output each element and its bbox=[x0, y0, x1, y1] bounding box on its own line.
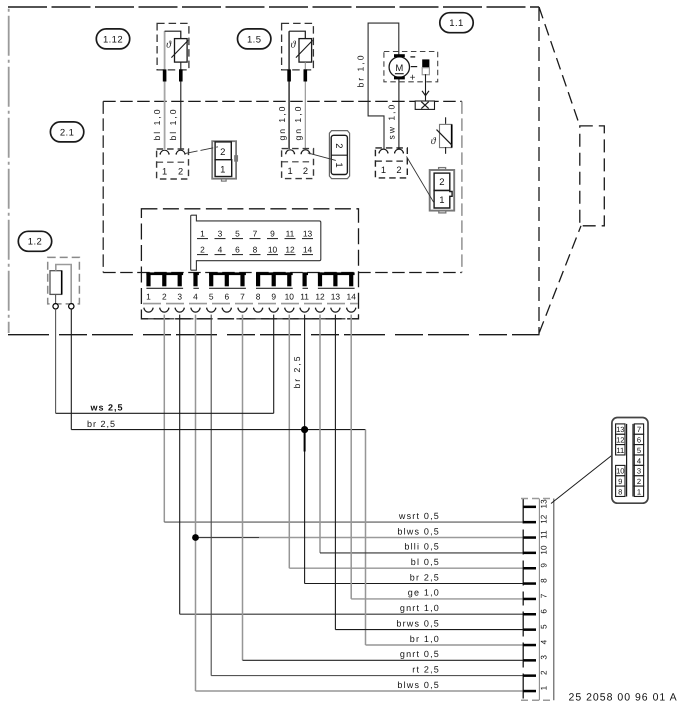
svg-text:1: 1 bbox=[162, 166, 167, 176]
svg-text:8: 8 bbox=[256, 291, 261, 301]
RH connector pin bar 3 bbox=[523, 659, 536, 662]
svg-text:8: 8 bbox=[540, 578, 549, 583]
connector pin tooth 14 bbox=[349, 272, 353, 286]
sensor 1.12 left lead wire bbox=[164, 31, 166, 149]
sensor 1.5 pin 2 bbox=[304, 69, 308, 81]
connector sensor 1.12 plug socket arc pin 2 bbox=[176, 150, 185, 154]
svg-text:2.1: 2.1 bbox=[60, 127, 74, 138]
wire blli 0,5 to RH pin 10 (horizontal) bbox=[320, 552, 523, 554]
svg-text:1.5: 1.5 bbox=[247, 34, 261, 45]
connector pin group bar pins 4-4 bbox=[193, 272, 199, 275]
svg-text:4: 4 bbox=[218, 245, 223, 255]
svg-text:gnrt 1,0: gnrt 1,0 bbox=[400, 603, 440, 613]
motor top brush cap bbox=[394, 54, 405, 57]
svg-text:+: + bbox=[410, 73, 416, 84]
svg-text:10: 10 bbox=[616, 467, 624, 476]
svg-text:ϑ: ϑ bbox=[291, 40, 297, 51]
RH connector bottom dashed edge bbox=[521, 699, 554, 701]
svg-text:13: 13 bbox=[303, 229, 313, 239]
wire br 2,5 from pin 11 (vertical) bbox=[304, 315, 306, 584]
fuse terminal 1 circle bbox=[53, 304, 58, 309]
svg-text:1.12: 1.12 bbox=[103, 34, 123, 45]
fuse 1.2 element body bbox=[50, 271, 62, 295]
ECU socket arc pin 2 bbox=[160, 308, 169, 313]
svg-text:9: 9 bbox=[618, 477, 622, 486]
svg-text:9: 9 bbox=[540, 563, 549, 568]
wire gnrt 0,5 to RH pin 3 (horizontal) bbox=[243, 659, 524, 661]
svg-text:5: 5 bbox=[540, 624, 549, 629]
connector motor 1.1 plug socket arc pin 1 bbox=[379, 149, 388, 153]
svg-text:rt 2,5: rt 2,5 bbox=[412, 664, 440, 674]
sensor 1.12 pin 2 bbox=[179, 69, 183, 81]
svg-text:5: 5 bbox=[235, 229, 240, 239]
sensor 1.5 left lead wire bbox=[288, 31, 290, 149]
group underline pins 4-4 bbox=[193, 287, 199, 289]
svg-text:13: 13 bbox=[540, 499, 549, 509]
wire br 2,5 fuse drop (vertical) bbox=[70, 309, 72, 430]
svg-text:brws 0,5: brws 0,5 bbox=[396, 618, 440, 628]
svg-text:blli 0,5: blli 0,5 bbox=[404, 542, 440, 552]
svg-text:2: 2 bbox=[303, 166, 308, 176]
connector motor 1.1 plug socket arc pin 2 bbox=[395, 149, 404, 153]
control unit 2.1 box top edge bbox=[103, 100, 462, 102]
svg-text:M: M bbox=[395, 63, 403, 74]
socket row bottom dashed line bbox=[141, 318, 358, 320]
svg-text:gn 1,0: gn 1,0 bbox=[293, 105, 303, 141]
RH connector pin bar 13 bbox=[523, 506, 536, 509]
RH connector top dashed edge bbox=[521, 498, 554, 500]
RH connector pin bar 4 bbox=[523, 644, 536, 647]
svg-text:2: 2 bbox=[178, 166, 183, 176]
connector sensor 1.12 plug separator line bbox=[157, 161, 189, 163]
RH face left cell 8 bbox=[616, 486, 625, 496]
RH face right cell 2 bbox=[634, 476, 643, 486]
connector pin group bar pins 5-7 bbox=[209, 272, 246, 275]
wire rt 2,5 to RH pin 2 (horizontal) bbox=[211, 675, 523, 677]
motor M circle bbox=[389, 57, 409, 77]
svg-text:ϑ: ϑ bbox=[166, 40, 172, 51]
RH connector pin bar 8 bbox=[523, 582, 536, 585]
wire br 1.0 motor supply loop bbox=[368, 23, 399, 149]
svg-text:2: 2 bbox=[439, 177, 444, 188]
label ellipse 1.12 bbox=[96, 29, 129, 49]
wire ws 2,5 fuse drop (vertical) bbox=[55, 309, 57, 413]
junction dot blws bbox=[192, 534, 199, 541]
RH connector pin bar 5 bbox=[523, 628, 536, 631]
RH face left cell 12 bbox=[616, 434, 625, 444]
RH face left cell 11 bbox=[616, 445, 625, 455]
motor M underline bbox=[395, 73, 404, 75]
connector pin tooth 4 bbox=[193, 272, 197, 286]
svg-text:2: 2 bbox=[540, 670, 549, 675]
svg-text:2: 2 bbox=[162, 291, 167, 301]
RH face left cell 13 bbox=[616, 424, 625, 434]
motor middle tick bbox=[411, 66, 417, 68]
sensor 1.12 bottom lead wire bbox=[180, 62, 182, 149]
wire blws 0,5 to RH pin 1 (horizontal) bbox=[196, 690, 524, 692]
connector sensor 1.12 plug socket arc pin 1 bbox=[160, 150, 169, 154]
control unit 2.1 box bottom edge bbox=[103, 272, 462, 274]
motor 1.1 dashed box bbox=[384, 52, 438, 82]
svg-text:bl 1,0: bl 1,0 bbox=[152, 107, 162, 140]
wire br 2,5 fuse to junction (horizontal) bbox=[71, 429, 365, 431]
svg-text:1: 1 bbox=[200, 229, 205, 239]
wire gnrt 1,0 from pin 3 (vertical) bbox=[179, 315, 181, 615]
RH connector pin bar 2 bbox=[523, 674, 536, 677]
wire wsrt 0,5 from pin 2 (vertical) bbox=[163, 315, 165, 522]
RH connector pin bar 6 bbox=[523, 613, 536, 616]
leader line from 1.12 plug pin 2 to face view bbox=[185, 147, 218, 154]
svg-text:12: 12 bbox=[540, 514, 549, 524]
RH face right cell 3 bbox=[634, 465, 643, 475]
ECU socket arc pin 7 bbox=[238, 308, 247, 313]
svg-text:12: 12 bbox=[616, 436, 624, 445]
fuse terminal 2 circle bbox=[69, 304, 74, 309]
connector pin tooth 9 bbox=[272, 272, 276, 286]
fuse 1.2 wire to terminal 1 bbox=[55, 294, 57, 303]
ECU socket arc pin 3 bbox=[175, 308, 184, 313]
group underline pins 8-10 bbox=[256, 287, 293, 289]
svg-text:4: 4 bbox=[193, 291, 198, 301]
svg-text:1: 1 bbox=[439, 195, 444, 206]
wire blws 0,5 to RH pin 11 (dark segment) (horizontal) bbox=[196, 537, 260, 539]
wire brws 0,5 from pin 13 (vertical) bbox=[334, 315, 336, 630]
connector sensor 1.5 plug separator line bbox=[282, 161, 314, 163]
fuse 1.2 internal wire to terminal 2 bbox=[56, 265, 71, 304]
svg-text:7: 7 bbox=[637, 425, 641, 434]
connector face view for motor 1.1 bbox=[430, 168, 455, 213]
ECU socket arc pin 4 bbox=[191, 308, 200, 313]
vehicle tail rectangle bbox=[580, 126, 605, 226]
svg-text:10: 10 bbox=[285, 291, 295, 301]
RH face right cell 5 bbox=[634, 445, 643, 455]
svg-text:10: 10 bbox=[268, 245, 278, 255]
svg-text:gnrt 0,5: gnrt 0,5 bbox=[400, 649, 440, 659]
svg-text:6: 6 bbox=[637, 436, 641, 445]
junction dot br 2,5 bbox=[301, 426, 308, 433]
svg-text:5: 5 bbox=[209, 291, 214, 301]
leader line from RH pin 13 to face view bbox=[551, 455, 612, 504]
fuse/crossed box symbol on 2.1 boundary bbox=[415, 101, 434, 109]
svg-text:7: 7 bbox=[253, 229, 258, 239]
svg-text:br 2,5: br 2,5 bbox=[410, 572, 440, 582]
svg-text:1: 1 bbox=[637, 487, 641, 496]
wire br 2,5 to RH pin 8 (horizontal) bbox=[305, 583, 524, 585]
svg-text:blws 0,5: blws 0,5 bbox=[397, 680, 440, 690]
RH face middle key slot bbox=[626, 424, 628, 497]
svg-text:1: 1 bbox=[288, 166, 293, 176]
sensor 1.5 pin 1 bbox=[287, 69, 291, 81]
label ellipse 2.1 bbox=[50, 122, 83, 142]
wire bl 0,5 to RH pin 9 (horizontal) bbox=[289, 567, 523, 569]
temperature sensor 1.12 dashed box bbox=[157, 23, 189, 70]
svg-text:10: 10 bbox=[540, 545, 549, 555]
wire ge 1,0 to RH pin 7 (horizontal) bbox=[351, 598, 523, 600]
group underline pins 12-14 bbox=[318, 287, 355, 289]
svg-text:6: 6 bbox=[224, 291, 229, 301]
connector pin group bar pins 8-10 bbox=[256, 272, 293, 275]
ECU connector housing (solid) bbox=[191, 215, 321, 270]
svg-text:6: 6 bbox=[540, 609, 549, 614]
svg-text:13: 13 bbox=[616, 425, 624, 434]
svg-text:13: 13 bbox=[331, 291, 341, 301]
svg-text:ge 1,0: ge 1,0 bbox=[408, 588, 440, 598]
RH face left cell 10 bbox=[616, 465, 625, 475]
RH connector pin bar 11 bbox=[523, 536, 536, 539]
wire motor negative lead down to plug pin 2 bbox=[398, 78, 400, 149]
ECU socket arc pin 14 bbox=[347, 308, 356, 313]
svg-text:8: 8 bbox=[618, 487, 622, 496]
svg-text:25 2058 00 96 01 A: 25 2058 00 96 01 A bbox=[569, 692, 678, 704]
wire ge 1,0 from pin 14 (vertical) bbox=[350, 315, 352, 599]
svg-text:2: 2 bbox=[200, 245, 205, 255]
motor minus sign bbox=[410, 56, 415, 58]
group underline pins 11-11 bbox=[303, 287, 309, 289]
ECU socket arc pin 12 bbox=[316, 308, 325, 313]
RH connector pin bar 7 bbox=[523, 598, 536, 601]
control unit 2.1 box left edge bbox=[102, 101, 104, 272]
svg-text:11: 11 bbox=[300, 291, 309, 301]
connector pin tooth 8 bbox=[256, 272, 260, 286]
ECU socket arc pin 6 bbox=[222, 308, 231, 313]
sensor 1.12 thermistor body bbox=[175, 39, 188, 63]
svg-text:3: 3 bbox=[540, 655, 549, 660]
connector motor 1.1 plug dashed box bbox=[375, 148, 407, 178]
wire gnrt 0,5 from pin 7 (vertical) bbox=[242, 315, 244, 661]
svg-text:3: 3 bbox=[637, 467, 641, 476]
svg-text:2: 2 bbox=[333, 143, 344, 148]
svg-text:2: 2 bbox=[396, 165, 401, 175]
wire ws 2,5 from pin 9 (vertical) bbox=[273, 315, 275, 414]
wire br 1,0 branch (vertical) bbox=[365, 430, 367, 645]
interference suppressor element (black) bbox=[422, 59, 429, 67]
svg-text:8: 8 bbox=[253, 245, 258, 255]
svg-text:bl 1,0: bl 1,0 bbox=[168, 107, 178, 140]
leader line from 1.5 plug pin 2 to face view bbox=[308, 153, 336, 161]
leader line from motor plug pin 2 to face view bbox=[407, 157, 435, 204]
ECU socket arc pin 8 bbox=[254, 308, 263, 313]
label ellipse 1.2 bbox=[18, 231, 51, 251]
wire ws 2,5 to fuse terminal 1 (horizontal) bbox=[56, 412, 274, 414]
connector pin tooth 1 bbox=[146, 272, 150, 286]
svg-text:1: 1 bbox=[146, 291, 151, 301]
RH connector right vertical line bbox=[553, 499, 555, 701]
svg-text:11: 11 bbox=[286, 229, 295, 239]
connector pin tooth 2 bbox=[162, 272, 166, 286]
svg-text:2: 2 bbox=[637, 477, 641, 486]
svg-text:ϑ: ϑ bbox=[431, 136, 437, 147]
svg-text:bl 0,5: bl 0,5 bbox=[411, 557, 440, 567]
svg-text:7: 7 bbox=[240, 291, 245, 301]
wire from suppressor with arrow bbox=[425, 74, 427, 101]
svg-text:blws 0,5: blws 0,5 bbox=[397, 526, 440, 536]
RH connector face view outer shell bbox=[612, 418, 648, 504]
wire gnrt 1,0 to RH pin 6 (horizontal) bbox=[180, 613, 524, 615]
connector pin tooth 7 bbox=[240, 272, 244, 286]
connector pin tooth 13 bbox=[333, 272, 337, 286]
vehicle outline bottom edge bbox=[8, 334, 540, 336]
svg-text:9: 9 bbox=[270, 229, 275, 239]
connector face view for 1.5 bbox=[329, 131, 349, 179]
svg-text:6: 6 bbox=[235, 245, 240, 255]
svg-text:11: 11 bbox=[616, 446, 624, 455]
vehicle outline top edge bbox=[8, 6, 539, 8]
connector motor 1.1 plug separator line bbox=[375, 160, 407, 162]
svg-text:2: 2 bbox=[220, 147, 225, 158]
svg-text:br 2,5: br 2,5 bbox=[292, 355, 302, 389]
svg-text:gn 1,0: gn 1,0 bbox=[277, 105, 287, 141]
svg-text:14: 14 bbox=[347, 291, 357, 301]
svg-text:1: 1 bbox=[540, 685, 549, 690]
vehicle outline right edge bbox=[538, 7, 540, 335]
connector pin group bar pins 11-11 bbox=[303, 272, 309, 275]
RH face right cell 4 bbox=[634, 455, 643, 465]
svg-text:ws 2,5: ws 2,5 bbox=[90, 403, 124, 413]
label ellipse 1.5 bbox=[238, 29, 271, 49]
socket row top dashed line bbox=[143, 303, 358, 305]
wire br 1,0 to RH pin 4 (horizontal) bbox=[366, 644, 524, 646]
RH face right cell 7 bbox=[634, 424, 643, 434]
group underline pins 1-3 bbox=[146, 287, 183, 289]
svg-text:br 2,5: br 2,5 bbox=[87, 419, 116, 429]
svg-text:7: 7 bbox=[540, 593, 549, 598]
RH connector inner vertical line bbox=[538, 499, 540, 701]
svg-text:5: 5 bbox=[637, 446, 641, 455]
svg-text:12: 12 bbox=[285, 245, 295, 255]
arrow head bbox=[422, 91, 429, 96]
svg-text:1.1: 1.1 bbox=[449, 18, 463, 29]
ECU socket arc pin 5 bbox=[207, 308, 216, 313]
control unit 2.1 box right edge bbox=[461, 101, 463, 272]
sensor 1.12 pin 1 bbox=[163, 69, 167, 81]
temperature sensor 1.5 dashed box bbox=[282, 23, 314, 70]
sensor 1.12 top internal wire bbox=[165, 31, 181, 38]
wire blws 0,5 to RH pin 11 (horizontal) bbox=[259, 537, 523, 539]
sensor 1.5 bottom lead wire bbox=[304, 62, 306, 149]
svg-text:12: 12 bbox=[315, 291, 325, 301]
connector pin tooth 3 bbox=[178, 272, 182, 286]
svg-text:1: 1 bbox=[381, 165, 386, 175]
ECU socket arc pin 9 bbox=[269, 308, 278, 313]
RH connector left spine (dashed) bbox=[522, 499, 524, 701]
connector sensor 1.5 plug socket arc pin 2 bbox=[301, 150, 310, 154]
RH connector pin bar 1 bbox=[523, 690, 536, 693]
svg-text:br 1,0: br 1,0 bbox=[410, 634, 440, 644]
connector pin group bar pins 1-3 bbox=[146, 272, 183, 275]
RH connector pin bar 10 bbox=[523, 552, 536, 555]
RH connector pin bar 12 bbox=[523, 521, 536, 524]
connector face view for 1.12 bbox=[212, 141, 237, 181]
interference suppressor element (white) bbox=[422, 68, 429, 75]
connector pin tooth 10 bbox=[287, 272, 291, 286]
svg-text:3: 3 bbox=[177, 291, 182, 301]
connector sensor 1.5 plug dashed box bbox=[282, 149, 314, 179]
connector pin tooth 12 bbox=[318, 272, 322, 286]
svg-text:1: 1 bbox=[333, 162, 344, 167]
RH connector pin bar 9 bbox=[523, 567, 536, 570]
vehicle tail bottom diagonal bbox=[539, 226, 581, 333]
svg-text:3: 3 bbox=[218, 229, 223, 239]
svg-text:11: 11 bbox=[540, 530, 549, 539]
ECU socket arc pin 1 bbox=[144, 308, 153, 313]
ECU socket arc pin 11 bbox=[300, 308, 309, 313]
sensor 1.5 top internal wire bbox=[289, 31, 305, 38]
internal thermistor of 1.1 bbox=[431, 117, 453, 154]
RH face right cell 6 bbox=[634, 434, 643, 444]
svg-text:sw 1,0: sw 1,0 bbox=[386, 103, 396, 140]
vehicle outline left edge bbox=[8, 9, 10, 333]
wire wsrt 0,5 to RH pin 12 (horizontal) bbox=[164, 521, 523, 523]
motor bottom brush cap bbox=[394, 76, 405, 79]
svg-text:9: 9 bbox=[271, 291, 276, 301]
RH face left cell 9 bbox=[616, 476, 625, 486]
sensor 1.5 thermistor body bbox=[299, 39, 312, 63]
group underline pins 5-7 bbox=[209, 287, 246, 289]
connector sensor 1.12 plug dashed box bbox=[157, 149, 189, 179]
RH face right cell 1 bbox=[634, 486, 643, 496]
connector pin group bar pins 12-14 bbox=[318, 272, 355, 275]
wire blli 0,5 from pin 12 (vertical) bbox=[319, 315, 321, 553]
wire blws 0,5 from pin 4 (vertical) bbox=[195, 315, 197, 691]
connector sensor 1.5 plug socket arc pin 1 bbox=[286, 150, 295, 154]
connector pin tooth 11 bbox=[303, 272, 307, 286]
ECU socket arc pin 13 bbox=[331, 308, 340, 313]
svg-text:wsrt 0,5: wsrt 0,5 bbox=[398, 511, 440, 521]
svg-text:4: 4 bbox=[637, 456, 641, 465]
ECU socket arc pin 10 bbox=[285, 308, 294, 313]
connector pin tooth 5 bbox=[209, 272, 213, 286]
wire rt 2,5 from pin 5 (vertical) bbox=[210, 315, 212, 676]
sensor 1.12 thermistor diagonal bbox=[171, 40, 188, 57]
svg-text:br 1,0: br 1,0 bbox=[356, 54, 366, 88]
wire brws 0,5 to RH pin 5 (horizontal) bbox=[335, 629, 523, 631]
label ellipse 1.1 bbox=[440, 13, 473, 33]
svg-text:4: 4 bbox=[540, 639, 549, 644]
svg-text:1: 1 bbox=[220, 165, 225, 176]
sensor 1.5 thermistor diagonal bbox=[296, 40, 313, 57]
connector pin tooth 6 bbox=[225, 272, 229, 286]
vehicle tail top diagonal bbox=[539, 7, 580, 126]
svg-text:14: 14 bbox=[303, 245, 313, 255]
fuse 1.2 dashed box bbox=[48, 257, 80, 304]
ECU 14-pin connector outer dashed box bbox=[141, 209, 358, 319]
wire bl 0,5 from pin 10 (vertical) bbox=[288, 315, 290, 569]
svg-text:1.2: 1.2 bbox=[28, 237, 42, 248]
